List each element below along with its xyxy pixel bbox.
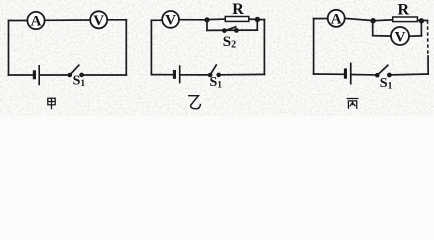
wire voltmeter to top-right corner [107,19,126,21]
resistor R (bing) body [393,17,418,22]
ammeter A2 circle [328,10,345,27]
voltmeter V3 circle [391,27,409,45]
node right junction (bing) [419,18,424,23]
wire ammeter to left junction (bing) [345,18,371,20]
switch S1 (jia) left contact dot [68,73,73,78]
wire left vertical (yi) [150,20,152,74]
wire resistor to right junction (bing) [417,19,419,22]
wire right vertical solid lower part (bing) [427,56,429,74]
wire right junction drop to switch branch [256,20,258,30]
label YI character (drawn as strokes) [189,96,201,109]
battery (bing) long plate [350,63,352,85]
wire right vertical (yi) [263,20,265,75]
switch S1 (yi) left contact dot [208,73,213,78]
svg-text:V: V [93,13,104,29]
wire voltmeter to left junction [179,19,205,21]
wire voltmeter loop left horizontal [373,35,391,37]
switch S1 (yi) blade [210,64,217,75]
wire battery to switch [40,74,69,76]
wire top-left stub to ammeter [9,20,28,22]
svg-text:R: R [398,2,410,19]
resistor R (yi) body [225,17,249,22]
wire battery to switch (bing) [352,74,375,76]
wire right junction to top-right corner [259,19,265,21]
wire left junction drop to switch branch [206,21,208,31]
wire right vertical (jia) [125,20,127,75]
switch S1 (yi) right contact dot [216,73,221,78]
voltmeter V1 circle [90,11,107,28]
battery (bing) short plate [344,68,347,78]
switch S1 (bing) left contact dot [375,73,380,78]
wire left junction to resistor [207,18,225,21]
wire resistor to right junction [249,18,256,20]
wire left junction to resistor (bing) [376,19,393,22]
switch S1 (bing) right contact dot [387,73,392,78]
svg-text:R: R [232,1,244,18]
switch S2 blade [224,27,236,31]
wire switch S1 to bottom-right corner (yi) [221,73,264,75]
wire switch to bottom-right corner [84,74,127,76]
label JIA character (drawn as strokes) [48,98,55,109]
svg-text:A: A [331,11,342,27]
switch S2 right contact dot [234,28,239,33]
wire voltmeter loop left drop [372,23,374,36]
node left junction (yi) [204,17,209,22]
battery (yi) short plate [173,70,176,79]
wire right vertical dashed upper part (bing) [427,20,429,56]
wire bottom-left to battery [9,74,34,76]
wire battery to switch S1 (yi) [181,74,208,76]
battery (yi) long plate [179,65,181,83]
node left junction (bing) [370,18,375,23]
switch S1 (jia) right contact dot [79,73,84,78]
switch S1 (bing) blade [377,65,388,76]
label BING character (drawn as strokes) [347,99,359,109]
battery (jia) short plate [33,70,36,79]
battery (jia) long plate [38,65,40,85]
switch S1 (jia) blade [70,65,80,76]
wire top-left stub to voltmeter [151,19,162,21]
wire bottom-left to battery (bing) [314,73,344,75]
node right junction (yi) [255,17,260,22]
voltmeter V2 circle [162,11,179,28]
wire bottom-left to battery (yi) [151,74,172,76]
wire switch to bottom-right corner (bing) [392,73,428,76]
svg-text:V: V [165,13,176,29]
wire ammeter to voltmeter [45,19,91,21]
wire switch branch (continuous under blade) [207,29,257,31]
svg-text:V: V [395,29,406,45]
wire right junction to top-right corner (bing) [424,19,428,21]
wire left vertical (jia) [8,21,10,76]
wire voltmeter loop right horizontal [409,35,421,37]
switch S2 left contact dot [222,28,227,33]
wire left vertical (bing) [313,19,315,74]
svg-text:A: A [31,14,42,30]
wire top-left stub to ammeter (bing) [314,18,328,20]
ammeter A1 circle [27,12,44,29]
wire voltmeter loop right rise [420,23,422,36]
